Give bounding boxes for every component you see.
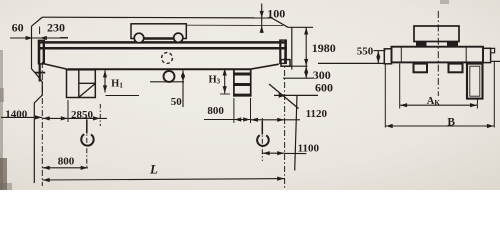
H3 arrow up [223, 69, 227, 76]
2850 arrow right [93, 116, 100, 120]
dim 60/230 line [10, 37, 68, 39]
building roof slant right [272, 18, 289, 27]
building right wall [291, 27, 293, 69]
end view rail line right inner [465, 47, 467, 63]
girder taper left [45, 64, 68, 69]
cab divider vertical [78, 70, 80, 98]
dim 800 right line [204, 119, 234, 121]
1100 arrow left [263, 151, 270, 155]
end view right small step [491, 48, 495, 52]
building ceiling line [43, 16, 272, 19]
building ceiling lower right [288, 26, 313, 28]
svg-text:100: 100 [267, 6, 285, 20]
girder bottom flange [68, 68, 250, 70]
800R arrow left [234, 117, 241, 121]
svg-text:600: 600 [315, 81, 333, 95]
arrow at wall [26, 36, 33, 40]
end view band left cap [384, 49, 391, 64]
girder end plate left bottom cap [38, 63, 45, 65]
550 arrow up [376, 51, 380, 57]
end view center axis [437, 11, 439, 96]
end view rail line left inner [400, 47, 402, 63]
trolley top extension line [187, 24, 284, 26]
ladder rung 2 [233, 83, 251, 86]
svg-text:1100: 1100 [298, 143, 320, 155]
right hook [261, 121, 263, 135]
end view wheel block right [449, 64, 463, 73]
L arrow right [277, 177, 284, 181]
B arrow right [487, 124, 494, 128]
svg-text:230: 230 [47, 21, 65, 35]
left rail seat tick [35, 72, 46, 74]
end view trolley wheel right [448, 42, 458, 47]
girder rail line [38, 47, 287, 50]
2850 arrow mid [61, 116, 68, 120]
ladder left ext [233, 98, 235, 123]
right bracket step line 300 [283, 77, 313, 79]
paper background [0, 0, 500, 190]
end view trolley body [414, 26, 459, 42]
dim H1 vertical [104, 70, 106, 92]
right bracket rail seat line [286, 65, 308, 67]
svg-text:1400: 1400 [5, 108, 28, 120]
B arrow left [386, 124, 393, 128]
runway level line between views [318, 62, 385, 64]
B ext right [493, 62, 495, 128]
1980 arrow down [304, 59, 308, 66]
Ak arrow left [400, 103, 407, 107]
2850 arrow left [43, 116, 50, 120]
end view runway line right [492, 60, 500, 62]
right rail axis [284, 58, 286, 190]
100 arrow up [260, 26, 264, 33]
dim 2850 line [42, 117, 107, 119]
svg-text:2850: 2850 [71, 109, 94, 121]
ladder rung 3 [233, 94, 251, 97]
scan mark top right [440, 0, 449, 4]
girder end plate right bottom cap [279, 62, 287, 64]
left hook axis [86, 117, 88, 168]
trolley frame bar [143, 37, 174, 40]
Ak ext left [399, 64, 401, 109]
ladder rung 1 [233, 73, 251, 76]
wall break diagonal [269, 84, 299, 109]
end view band (bridge cross girder) [392, 47, 484, 63]
1100 arrow right [277, 151, 284, 155]
end view trolley wheel left [417, 42, 427, 47]
svg-text:800: 800 [207, 105, 224, 117]
800L arrow left [43, 166, 50, 170]
ladder right ext [250, 98, 252, 123]
cab left ext line [67, 100, 69, 122]
800R arrow right [243, 117, 250, 121]
svg-text:L: L [149, 162, 158, 177]
cab window diagonal [79, 84, 95, 97]
operator cab [67, 70, 96, 98]
H1 lower ref line [106, 95, 140, 97]
dim L line [42, 179, 284, 180]
H1 arrow down [103, 85, 107, 92]
svg-text:60: 60 [12, 21, 24, 35]
svg-text:800: 800 [58, 156, 75, 168]
girder end plate left inner bar [43, 40, 45, 64]
Ak ext right [476, 99, 478, 109]
end view band right cap [483, 48, 491, 62]
trolley wheel left [134, 33, 144, 43]
scan smudge bottom left [0, 158, 7, 190]
dim 100 vertical [261, 4, 263, 34]
auxiliary hoist ladder right rail [250, 69, 252, 96]
dim 1100 line [262, 152, 284, 154]
B ext left [384, 64, 386, 128]
left runway bracket profile [32, 69, 43, 183]
svg-text:1120: 1120 [306, 108, 328, 120]
L arrow left [43, 178, 50, 182]
svg-text:550: 550 [357, 46, 374, 58]
svg-text:B: B [447, 116, 455, 128]
dim 550 leader [374, 50, 386, 52]
walkway stub above left end [60, 37, 68, 39]
end view hoist box inner [470, 66, 480, 96]
dim 1400 line [1, 116, 42, 118]
trolley body [131, 24, 186, 39]
H3 ref tick [220, 93, 230, 95]
300 arrow up [304, 66, 308, 72]
1100 tail right [285, 152, 307, 154]
H1 arrow up [103, 70, 107, 77]
800R span line [234, 119, 251, 121]
building roof corner slant left [32, 17, 43, 26]
dim 300 vertical [305, 66, 307, 78]
girder end plate left outer bar [38, 40, 41, 64]
scan smudge left mid [0, 88, 4, 102]
girder end plate right top cap [279, 39, 287, 41]
girder face ext tick [39, 27, 41, 35]
1980 arrow up [304, 28, 308, 35]
girder end plate right inner bar [279, 40, 281, 64]
1120 arrow left [251, 118, 258, 122]
dim B line [385, 125, 494, 127]
hook pulley raised (dashed) [162, 53, 173, 64]
dim 50 vertical [182, 70, 184, 107]
girder end plate left top cap [38, 39, 45, 41]
550 arrow down [376, 57, 380, 63]
dim 1120 line [251, 119, 285, 121]
left rail wheel contact cross [39, 64, 41, 82]
cab divider horizontal [79, 82, 96, 84]
50 arrow up [181, 71, 185, 78]
girder top flange [38, 41, 287, 44]
100 arrow down [260, 11, 264, 18]
1120 arrow right [277, 118, 284, 122]
end view hoist box [467, 64, 483, 99]
svg-text:50: 50 [171, 96, 183, 108]
dim H3 vertical [224, 68, 226, 93]
left rail axis [41, 62, 43, 186]
dim 550 vertical [377, 51, 379, 63]
50 arrow down [181, 75, 185, 82]
dim 800 left line [42, 167, 88, 169]
right rail block under end plate [281, 60, 290, 67]
right hook axis [261, 118, 263, 161]
Ak arrow right [470, 103, 477, 107]
800L arrow right [81, 166, 88, 170]
hook pulley lowered [164, 71, 175, 82]
auxiliary hoist ladder left rail [233, 69, 235, 96]
300 arrow down [304, 72, 308, 78]
scan shadow left edge [0, 50, 3, 190]
1400 arrow right [35, 115, 42, 119]
dim Ak line [400, 104, 478, 106]
right bracket step line 600 [274, 94, 318, 96]
wall lower vertical [295, 95, 297, 170]
girder end plate right outer bar [284, 40, 287, 64]
H3 arrow down [223, 86, 227, 93]
end view wheel block left [414, 64, 428, 73]
svg-text:1980: 1980 [312, 41, 336, 55]
girder taper right [250, 64, 279, 69]
trolley extreme axis (2850 ext) [99, 104, 101, 126]
building left wall [31, 26, 33, 69]
arrow at girder face [40, 36, 47, 40]
trolley wheel right [174, 33, 183, 42]
dim 1980 vertical [305, 27, 307, 66]
left hook [86, 120, 88, 134]
1120 tail right [285, 119, 300, 121]
